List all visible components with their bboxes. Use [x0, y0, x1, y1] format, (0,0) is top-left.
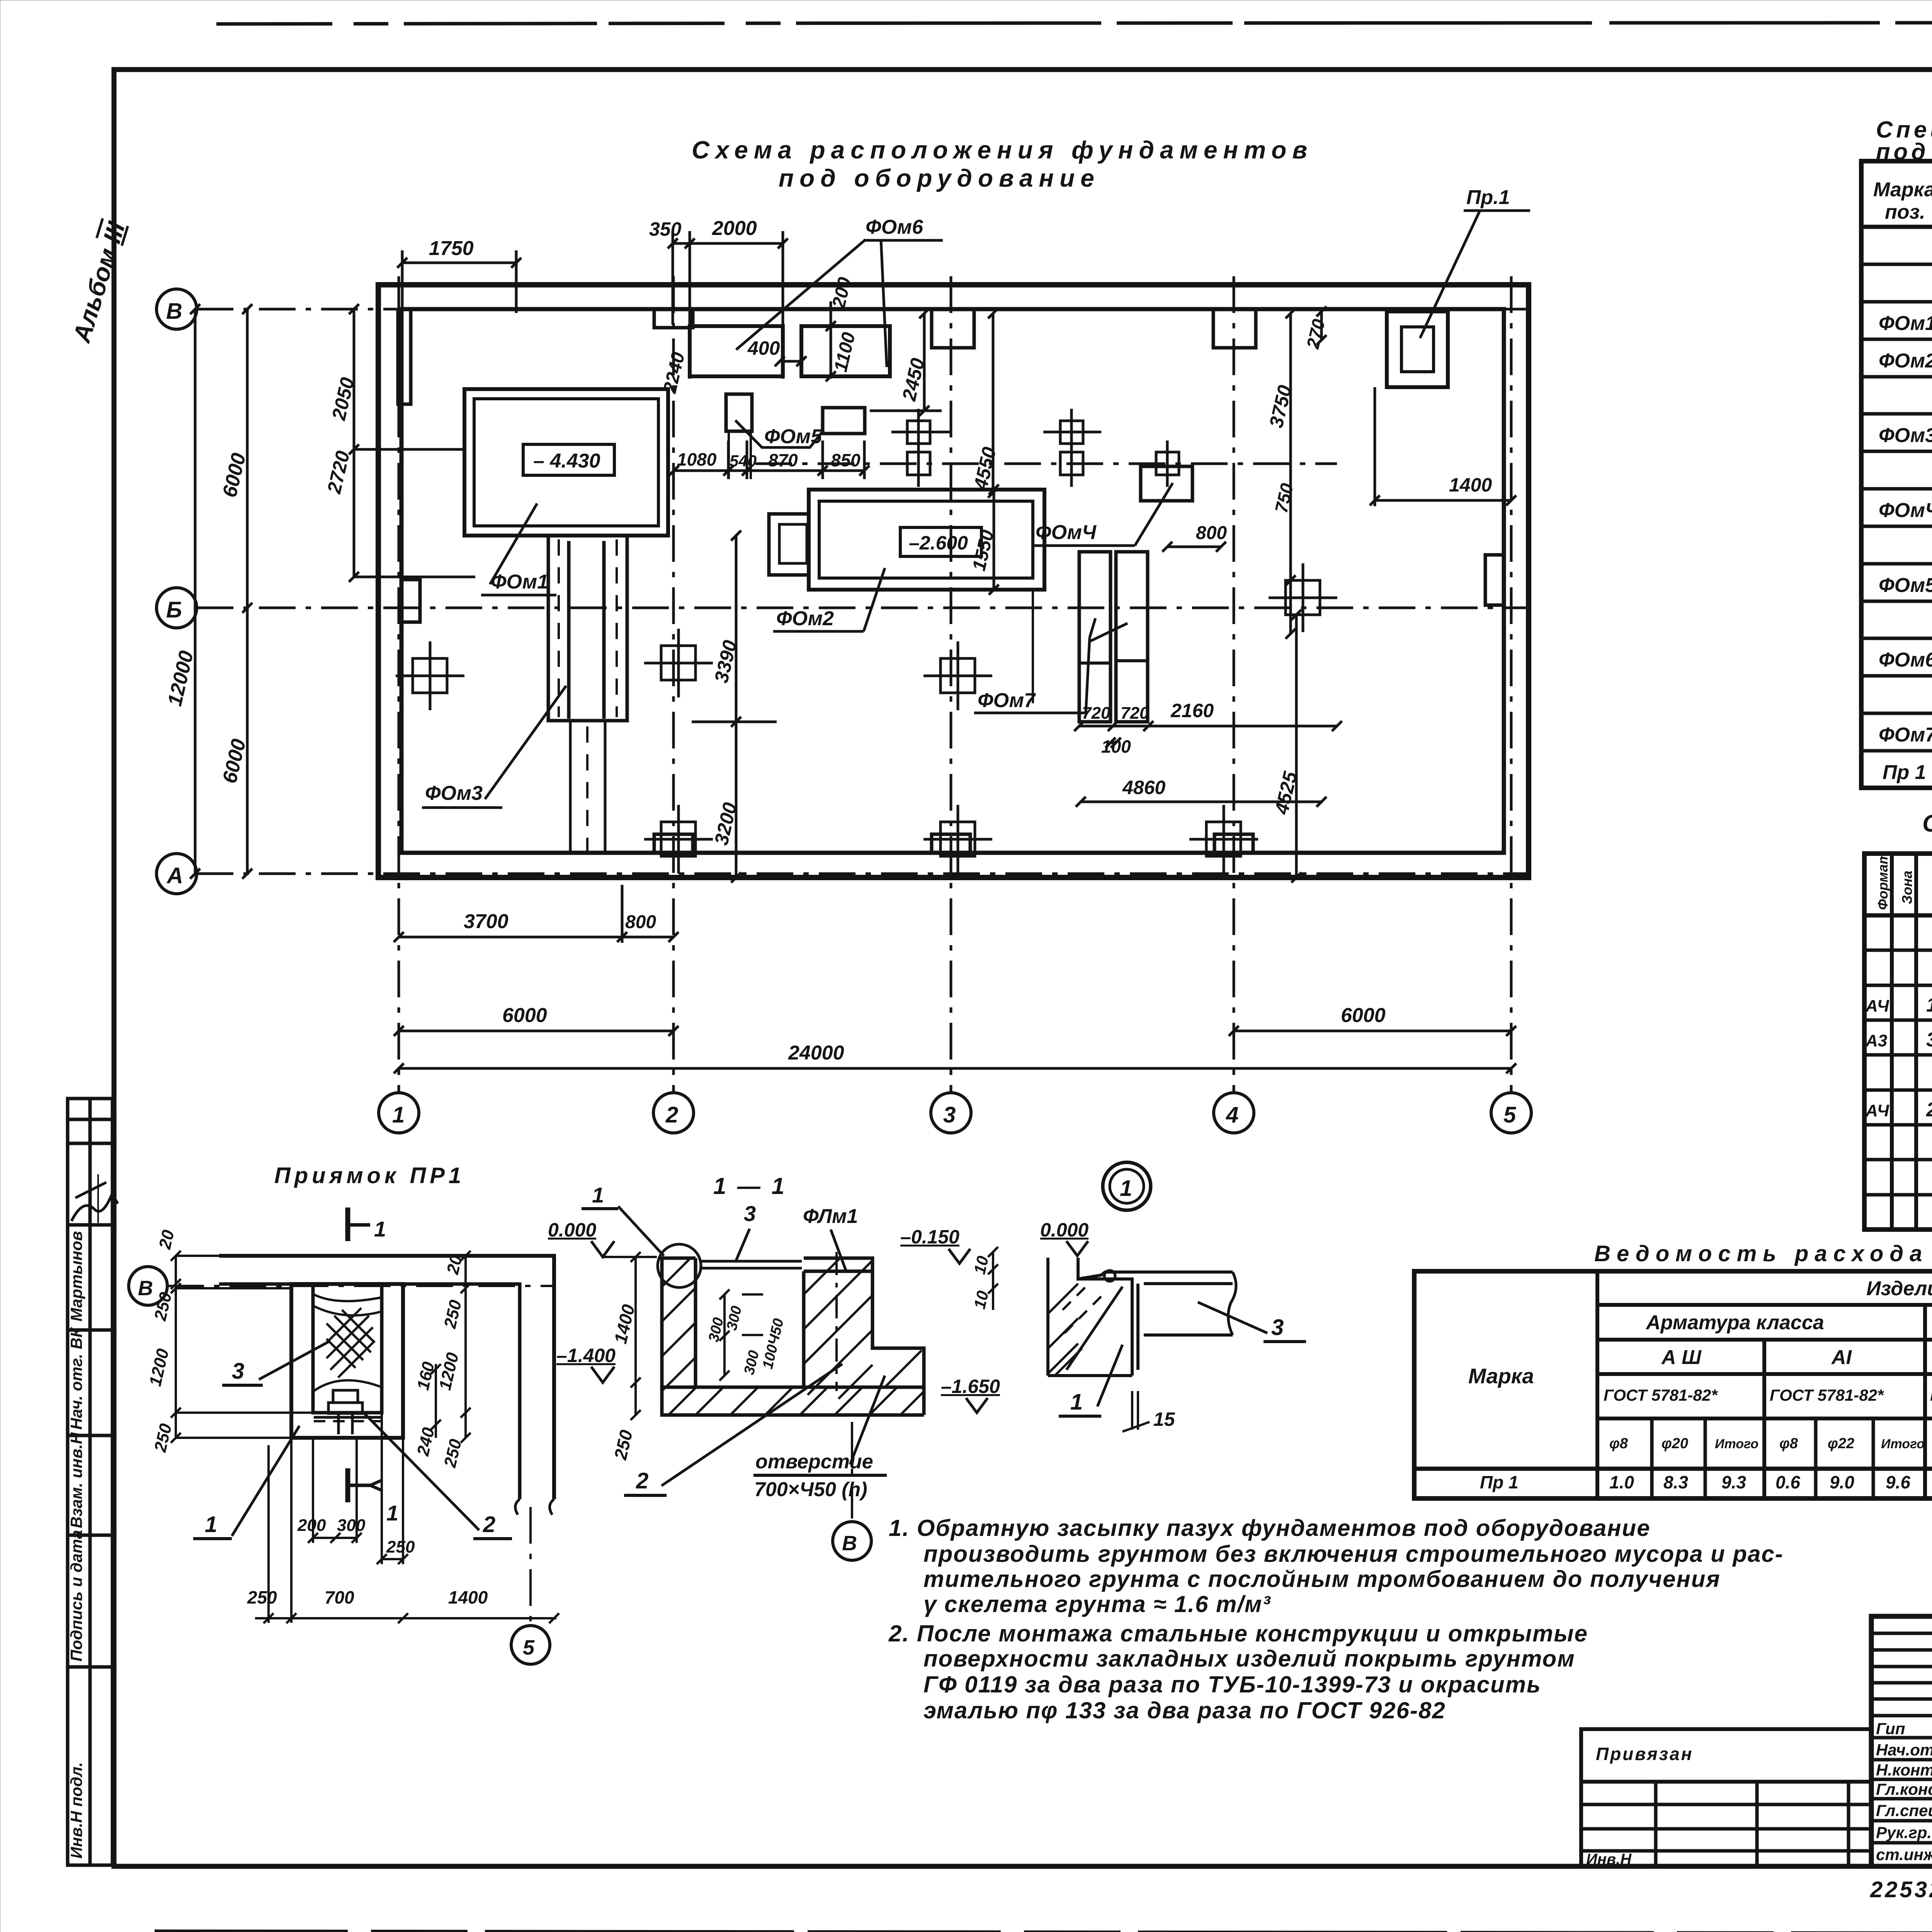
grid circle row B: [156, 588, 197, 628]
svg-text:9.3: 9.3: [1721, 1472, 1746, 1492]
svg-text:В: В: [138, 1277, 153, 1300]
steel table text: [1468, 1277, 1932, 1492]
svg-text:ФОм2: ФОм2: [776, 607, 834, 630]
svg-text:φ8: φ8: [1609, 1435, 1628, 1452]
pilaster left wall row B: [401, 580, 420, 622]
album III rotated label: [67, 218, 131, 346]
svg-text:ФОм6: ФОм6: [1879, 649, 1932, 671]
svg-text:6000: 6000: [218, 737, 250, 786]
dim 2050 2720 left: [323, 304, 475, 582]
section mark 1 top: [345, 1207, 350, 1241]
svg-text:200: 200: [297, 1516, 326, 1535]
svg-text:1: 1: [1070, 1389, 1083, 1415]
svg-text:Итого: Итого: [1881, 1437, 1925, 1451]
svg-text:5: 5: [523, 1636, 535, 1659]
svg-text:Итого: Итого: [1715, 1437, 1759, 1451]
svg-text:Пр 1: Пр 1: [1480, 1472, 1519, 1492]
equipment centerline: [755, 463, 1337, 465]
svg-text:1: 1: [1120, 1176, 1132, 1201]
svg-text:9.6: 9.6: [1886, 1472, 1910, 1492]
svg-text:1 — 1: 1 — 1: [713, 1173, 787, 1199]
section 1-1 dims 1400 250: [610, 1252, 641, 1462]
building inner wall: [401, 309, 1504, 853]
spec table 2 body text: [1865, 923, 1932, 1226]
svg-text:2: 2: [1926, 1099, 1932, 1121]
foundation FOM2: [809, 490, 1044, 590]
svg-text:250: 250: [151, 1290, 176, 1323]
svg-text:12000: 12000: [163, 649, 198, 708]
building outer wall: [378, 285, 1529, 878]
grid axis lines horizontal: [197, 309, 1529, 874]
section 1-1 cover plate: [699, 1260, 802, 1263]
svg-text:ФОм5: ФОм5: [1879, 574, 1932, 597]
svg-text:2. После монтажа стальные к: 2. После монтажа стальные конструкции и …: [888, 1621, 1588, 1646]
svg-text:2240: 2240: [660, 350, 689, 395]
pit plan axis V: [129, 1267, 167, 1305]
svg-text:Приямок ПР1: Приямок ПР1: [274, 1163, 465, 1188]
foundation FOM1: [464, 389, 668, 536]
svg-text:2160: 2160: [1170, 700, 1214, 721]
svg-text:870: 870: [768, 450, 798, 470]
svg-text:4: 4: [1226, 1102, 1238, 1128]
pilaster bottom col4: [1214, 834, 1253, 853]
svg-text:3: 3: [232, 1359, 244, 1384]
dim 6000 6000 24000 bottom: [394, 1004, 1516, 1073]
svg-text:Формат: Формат: [1875, 852, 1891, 910]
svg-text:800: 800: [625, 912, 656, 932]
pit plan walls: [219, 1256, 554, 1499]
svg-text:–1.400: –1.400: [556, 1345, 616, 1366]
section 1-1 hatch right block: [804, 1258, 922, 1399]
svg-text:300: 300: [741, 1349, 762, 1376]
svg-text:ст.инж.: ст.инж.: [1876, 1845, 1932, 1864]
node 1 detail circle: [1103, 1162, 1151, 1210]
bottom annotation row: [1870, 1877, 1932, 1902]
svg-text:Б: Б: [166, 597, 182, 622]
spec table 1 header text: [1873, 179, 1932, 223]
svg-text:А3: А3: [1865, 1031, 1887, 1050]
svg-text:ГОСТ 8509-86: ГОСТ 8509-86: [1930, 1386, 1932, 1404]
svg-text:540: 540: [730, 452, 757, 470]
grid circle col 5: [1491, 1093, 1531, 1133]
foundation FOM5: [726, 394, 752, 431]
svg-text:–2.600: –2.600: [909, 532, 968, 554]
section mark 1 bottom: [345, 1468, 350, 1502]
left stamp strip: [67, 1099, 118, 1865]
svg-text:Марка: Марка: [1873, 179, 1932, 201]
svg-text:0.000: 0.000: [548, 1219, 596, 1241]
pilaster bottom col3: [932, 834, 970, 853]
dim 1550: [969, 485, 999, 595]
svg-text:Нач.отд.: Нач.отд.: [1876, 1741, 1932, 1759]
column footing squares with crosses: [396, 563, 1337, 874]
svg-text:1: 1: [374, 1217, 386, 1241]
foundation FOM4: [1141, 466, 1192, 501]
svg-text:ГОСТ 5781-82*: ГОСТ 5781-82*: [1770, 1386, 1884, 1404]
pit curves shading: [314, 1294, 382, 1315]
svg-text:Гл.спец.: Гл.спец.: [1876, 1801, 1932, 1820]
pilaster top col2: [654, 309, 693, 328]
svg-text:Инв.Н: Инв.Н: [1586, 1851, 1632, 1868]
svg-text:Изделия закладные: Изделия закладные: [1866, 1277, 1932, 1300]
small equipment squares pairs: [907, 409, 1179, 487]
svg-text:1: 1: [386, 1501, 398, 1525]
svg-text:В: В: [842, 1532, 857, 1555]
svg-text:Пр 1: Пр 1: [1883, 761, 1926, 784]
node 1 big diagonal leader: [1066, 1287, 1122, 1370]
svg-text:3: 3: [1926, 1029, 1932, 1051]
pit plan left dims 20 250 1200 250: [146, 1228, 313, 1454]
svg-text:———: ———: [88, 1174, 106, 1223]
pilaster bottom col2: [654, 834, 693, 853]
svg-text:φ8: φ8: [1779, 1435, 1798, 1452]
svg-text:ФОм1: ФОм1: [1879, 312, 1932, 335]
svg-text:160: 160: [413, 1360, 438, 1392]
svg-text:Привязан: Привязан: [1596, 1744, 1693, 1764]
grid circle row A: [156, 854, 197, 894]
svg-text:А Ш: А Ш: [1661, 1346, 1702, 1369]
svg-text:Арматура класса: Арматура класса: [1645, 1311, 1824, 1334]
svg-text:1400: 1400: [1449, 474, 1492, 496]
pilaster top col4: [1213, 309, 1256, 348]
svg-text:3: 3: [1271, 1315, 1284, 1340]
svg-text:2: 2: [665, 1102, 678, 1128]
svg-text:ФОмЧ: ФОмЧ: [1036, 521, 1097, 544]
section axis V circle: [851, 1422, 853, 1519]
section 1-1 hatch bottom slab: [696, 1387, 924, 1415]
svg-text:700: 700: [325, 1587, 354, 1607]
svg-text:В: В: [166, 299, 182, 324]
section 1-1 body: [662, 1258, 924, 1415]
node 1 small dims 10 10: [970, 1247, 998, 1311]
signature scribble: [71, 1194, 118, 1221]
pit plan right dims 20 250 1200 250 160 240: [413, 1251, 471, 1469]
section 1-1 hatch left wall: [662, 1258, 696, 1415]
svg-text:6000: 6000: [502, 1004, 547, 1027]
svg-text:100Ч50: 100Ч50: [760, 1317, 787, 1371]
svg-text:φ22: φ22: [1828, 1435, 1854, 1452]
svg-text:20: 20: [155, 1228, 178, 1251]
svg-text:5: 5: [1503, 1102, 1516, 1128]
svg-text:1400: 1400: [448, 1587, 488, 1607]
dim 2450 4550: [870, 308, 1000, 498]
svg-text:Рук.гр.: Рук.гр.: [1876, 1823, 1932, 1842]
grid circle col 4: [1214, 1093, 1254, 1133]
svg-text:22532-01: 22532-01: [1870, 1877, 1932, 1902]
svg-text:Пр.1: Пр.1: [1466, 186, 1510, 209]
svg-text:под оборудование: под оборудование: [779, 164, 1100, 192]
svg-text:ГОСТ 5781-82*: ГОСТ 5781-82*: [1604, 1386, 1718, 1404]
svg-text:ФОм1: ФОм1: [491, 571, 548, 593]
svg-text:ФОм7: ФОм7: [1879, 724, 1932, 746]
dim 1750 top: [397, 237, 521, 383]
dim 6000 6000 12000 left: [163, 304, 252, 879]
svg-text:750: 750: [1271, 481, 1297, 515]
corner stub top-left: [398, 309, 411, 404]
pilaster top col3: [932, 309, 974, 348]
privyazan sub-table: [1581, 1729, 1871, 1866]
svg-text:800: 800: [1196, 523, 1227, 543]
svg-text:3: 3: [943, 1102, 956, 1128]
svg-text:1200: 1200: [146, 1347, 173, 1388]
svg-text:8.3: 8.3: [1663, 1472, 1688, 1492]
pilaster right wall row B: [1485, 555, 1504, 605]
svg-text:ФОм3: ФОм3: [425, 782, 483, 804]
svg-text:φ20: φ20: [1662, 1435, 1688, 1452]
dim 3750 270 750: [1265, 306, 1329, 639]
svg-text:250: 250: [247, 1587, 277, 1607]
svg-text:1. Обратную засыпку пазух ф: 1. Обратную засыпку пазух фундаментов по…: [889, 1515, 1651, 1541]
svg-text:15: 15: [1153, 1408, 1175, 1430]
svg-text:Альбом III: Альбом III: [67, 218, 131, 346]
node 1 hatch: [1048, 1283, 1101, 1376]
svg-text:2: 2: [636, 1468, 648, 1493]
svg-text:ГФ 0119 за два раза по ТУБ: ГФ 0119 за два раза по ТУБ-10-1399-73 и …: [923, 1672, 1541, 1697]
dim 4525: [1270, 610, 1301, 883]
grid circle col 3: [931, 1093, 971, 1133]
pit bracket detail: [328, 1403, 362, 1413]
svg-text:250: 250: [440, 1437, 466, 1469]
svg-text:250: 250: [440, 1298, 466, 1330]
svg-text:1.0: 1.0: [1609, 1472, 1634, 1492]
steel table grid: [1414, 1271, 1932, 1498]
svg-text:производить грунтом без включе: производить грунтом без включения строит…: [923, 1541, 1784, 1567]
pit plan circle 5: [529, 1507, 532, 1625]
svg-text:1750: 1750: [429, 237, 474, 260]
pit plan bottom dims: [247, 1413, 559, 1623]
svg-text:ФОм6: ФОм6: [866, 216, 923, 238]
svg-text:ФОмЧ: ФОмЧ: [1879, 499, 1932, 522]
grid circle row V: [156, 289, 197, 329]
spec table 2 header text: [1875, 852, 1932, 910]
svg-text:24000: 24000: [788, 1042, 844, 1064]
svg-text:300: 300: [724, 1304, 745, 1332]
svg-text:γ скелета грунта ≈ 1.6 т/м³: γ скелета грунта ≈ 1.6 т/м³: [923, 1591, 1271, 1617]
svg-text:400: 400: [747, 337, 780, 359]
svg-text:поверхности закладных издели: поверхности закладных изделий покрыть гр…: [923, 1646, 1575, 1672]
svg-text:– 4.430: – 4.430: [533, 450, 600, 472]
svg-text:3700: 3700: [464, 910, 509, 933]
foundation FOM7: [1079, 552, 1111, 722]
node 1 drawing: [1048, 1258, 1236, 1376]
svg-text:–1.650: –1.650: [941, 1376, 1000, 1397]
svg-text:ФОм3: ФОм3: [1879, 424, 1932, 447]
svg-text:поз.: поз.: [1885, 201, 1925, 223]
svg-text:Нач. отг. ВК: Нач. отг. ВК: [67, 1327, 85, 1430]
main stamp outline: [1871, 1616, 1932, 1866]
svg-text:3: 3: [744, 1201, 756, 1226]
section 1-1 inner small dims: [706, 1304, 787, 1376]
svg-text:250: 250: [151, 1422, 176, 1454]
svg-text:Зона: Зона: [1899, 871, 1915, 904]
dim 3390 3200: [692, 531, 777, 883]
svg-text:2720: 2720: [323, 449, 354, 496]
svg-text:850: 850: [831, 450, 861, 470]
svg-text:Взам. инв.Н: Взам. инв.Н: [67, 1432, 85, 1528]
section 1-1 anchor centerline: [835, 1252, 838, 1391]
svg-text:240: 240: [413, 1425, 439, 1458]
dim 720 720 2160 100 4860: [1074, 700, 1342, 807]
svg-text:АЧ: АЧ: [1865, 1101, 1889, 1120]
node 1 dim 15: [1131, 1391, 1133, 1430]
svg-text:2000: 2000: [712, 217, 757, 240]
svg-text:720: 720: [1082, 704, 1111, 723]
people labels: [1876, 1719, 1932, 1864]
dim 350 2000: [649, 217, 788, 379]
svg-text:АЧ: АЧ: [1865, 997, 1889, 1015]
svg-text:200: 200: [828, 275, 855, 310]
svg-text:4550: 4550: [969, 445, 1000, 492]
svg-text:Спецификация приямка Пр1: Спецификация приямка Пр1: [1922, 810, 1932, 837]
svg-text:100: 100: [1101, 736, 1131, 757]
svg-text:270: 270: [1303, 317, 1329, 351]
svg-text:250: 250: [610, 1428, 636, 1462]
spec table 1 body text: [1879, 237, 1932, 784]
svg-text:ФОм7: ФОм7: [978, 689, 1036, 712]
svg-text:Мартынов: Мартынов: [67, 1231, 85, 1321]
svg-text:Ведомость расхода стали на: Ведомость расхода стали на элемент, кг: [1594, 1241, 1932, 1266]
svg-text:1200: 1200: [435, 1350, 463, 1392]
svg-text:1: 1: [1926, 994, 1932, 1016]
grid axis lines vertical: [399, 276, 1511, 1093]
svg-text:ФЛм1: ФЛм1: [803, 1205, 858, 1228]
pit hatch: [327, 1308, 375, 1378]
svg-text:6000: 6000: [218, 451, 250, 500]
dim 800 (fom4): [1162, 523, 1227, 552]
svg-text:1: 1: [392, 1102, 405, 1128]
svg-text:1080: 1080: [677, 449, 717, 469]
foundation FOM3 rails: [548, 536, 627, 721]
svg-text:6000: 6000: [1341, 1004, 1386, 1027]
spec table 2 grid: [1864, 854, 1932, 1230]
pit walls: [291, 1284, 403, 1438]
svg-text:350: 350: [649, 218, 682, 240]
svg-text:300: 300: [337, 1516, 366, 1535]
svg-text:9.0: 9.0: [1830, 1472, 1854, 1492]
svg-text:эмалью пφ 133 за два раза п: эмалью пφ 133 за два раза по ГОСТ 926-82: [923, 1697, 1446, 1723]
svg-text:250: 250: [386, 1537, 415, 1556]
svg-text:1: 1: [592, 1183, 604, 1207]
svg-text:Гл.конс.: Гл.конс.: [1876, 1780, 1932, 1798]
svg-text:АI: АI: [1831, 1346, 1852, 1369]
svg-text:1400: 1400: [610, 1302, 639, 1345]
svg-text:Н.конт.: Н.конт.: [1876, 1761, 1932, 1779]
svg-text:1: 1: [205, 1512, 217, 1537]
svg-text:0.000: 0.000: [1040, 1219, 1088, 1241]
svg-text:1100: 1100: [830, 330, 859, 374]
svg-text:ФОм2: ФОм2: [1879, 350, 1932, 372]
grid circle col 2: [653, 1093, 694, 1133]
svg-text:Подпись и дата: Подпись и дата: [67, 1530, 85, 1662]
svg-text:Гип: Гип: [1876, 1719, 1905, 1738]
svg-text:Схема расположения фундамент: Схема расположения фундаментов: [692, 136, 1313, 164]
dim 1400 right: [1370, 387, 1516, 506]
svg-text:720: 720: [1121, 704, 1149, 723]
left rows thin: [1871, 1633, 1932, 1843]
svg-text:Инв.Н подл.: Инв.Н подл.: [67, 1762, 85, 1859]
dim row 1080 540 870 850: [669, 440, 869, 479]
svg-text:2: 2: [483, 1512, 495, 1537]
svg-text:700×Ч50 (h): 700×Ч50 (h): [754, 1478, 867, 1501]
svg-text:тительного грунта с послойным: тительного грунта с послойным тромбовани…: [923, 1566, 1721, 1592]
foundation FOM6: [690, 326, 783, 376]
svg-text:А: А: [166, 863, 183, 888]
svg-text:0.6: 0.6: [1776, 1472, 1800, 1492]
grid circle col 1: [379, 1093, 419, 1133]
dim 400 / 1100 / 200 / 2240: [660, 275, 859, 395]
pit Pr1 top right: [1387, 311, 1448, 387]
svg-text:4860: 4860: [1122, 777, 1165, 798]
dim 3700 800 bottom: [394, 885, 679, 943]
svg-text:–0.150: –0.150: [900, 1226, 959, 1248]
spec table 1 grid: [1861, 161, 1932, 788]
svg-text:Марка: Марка: [1468, 1364, 1534, 1388]
section 1-1 node circle: [658, 1244, 701, 1287]
